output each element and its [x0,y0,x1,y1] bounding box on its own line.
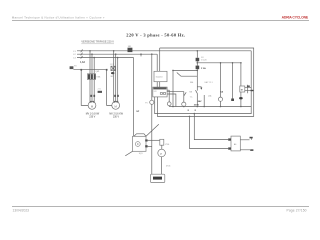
node dot column-L1 [197,50,199,52]
relay KA2 [231,136,240,151]
svg-text:P1: P1 [145,102,147,104]
svg-text:Page 27/150: Page 27/150 [287,209,307,213]
wires from controller box [167,90,184,106]
contactor KM1 hatched block [87,74,95,80]
svg-text:KA1 T.C.1: KA1 T.C.1 [205,81,213,84]
svg-text:T.C.: T.C. [190,97,194,99]
node dot L2-SP [151,53,153,55]
svg-text:KM1: KM1 [97,77,101,79]
wire loop to relay lower [190,116,229,148]
wire stub at node 141 [140,54,142,56]
breaker slash on L2 [81,53,83,56]
terminal square M2 [106,69,108,71]
svg-text:F 2A: F 2A [201,67,206,70]
footer rule [12,206,309,208]
svg-text:13/04/2023: 13/04/2023 [13,209,30,213]
svg-text:LT06: LT06 [165,144,169,146]
node dot L3-M2 [117,57,119,59]
fuse F2 [196,66,200,70]
wire M1 earth bracket [81,70,88,105]
relay K2 [240,86,245,92]
svg-text:Inverter: Inverter [156,76,163,79]
svg-text:24s: 24s [208,96,211,98]
buzzer branch [240,63,242,107]
wire L3 supply line [77,57,134,59]
wire branch x204 [203,95,205,107]
wire L1 supply line [77,50,251,52]
wire M1 phase drops [90,51,94,102]
wire switch to connector [148,139,160,141]
motor M2 [112,102,120,110]
wire loop inner [155,51,252,114]
svg-text:230 V: 230 V [89,116,95,118]
svg-text:MV 2 0,6 KW: MV 2 0,6 KW [109,113,123,115]
svg-text:VERSIONE TRIFASE 220 V: VERSIONE TRIFASE 220 V [81,40,114,44]
emergency stop SB1 [128,48,133,52]
wire loop outer [157,48,253,116]
svg-text:ADRIA CYCLONE: ADRIA CYCLONE [282,16,309,20]
node dot column-rail70 [197,70,199,72]
wire L2 drop through pressure switch [151,54,153,174]
svg-text:1,3A: 1,3A [80,61,85,64]
svg-text:M: M [241,89,243,91]
wire loop to relay upper [194,114,228,140]
svg-text:P: P [160,152,162,156]
thermal overload M2 [111,72,114,74]
terminal strip X1 [151,174,165,182]
relay KA2 left ticks [228,138,231,140]
node dot L2-M2 [115,53,117,55]
node dot rail left [172,70,174,72]
relay KA2 right stubs [240,140,250,150]
switch blade lower [125,151,132,156]
float pump motor [161,145,163,149]
svg-text:MV 1 0,6 KW: MV 1 0,6 KW [86,113,100,115]
connector block x232 [231,99,234,102]
svg-text:M2: M2 [111,76,114,78]
wire branch x173 [172,70,174,106]
svg-text:230V: 230V [194,104,200,106]
wire branch x232 [232,63,234,99]
wire float column [161,157,163,174]
node dot column-rail62 [197,62,199,64]
wire M2 phase drops [114,51,118,102]
svg-text:24V: 24V [198,100,202,103]
wire 24V rail [173,69,197,71]
coil KA1 arrow mark [197,86,201,89]
node dot L2-M1 [91,53,93,55]
svg-text:Manuel Technique & Notice d'Ut: Manuel Technique & Notice d'Utilisation … [12,16,105,20]
breaker slash on L3 [81,56,83,59]
header rule [12,20,309,22]
pressure switch SP [150,100,154,104]
lamp HL2 [167,102,171,106]
wire M2 earth bracket [107,70,112,105]
node dots bottom rail [172,106,174,108]
fuse FU2 [196,58,200,62]
connector LT06 box [160,139,164,145]
contact on lamp branch [184,92,186,96]
selector SA branch [220,63,222,107]
controller board U2 [153,87,167,97]
wire inverter to controller [157,82,160,87]
node dot L3-M1 [93,57,95,59]
wire inverter risers [157,48,160,71]
wire control column [196,51,198,107]
buzzer HA1 [239,97,243,99]
switch blade upper [146,124,159,136]
node dot L1-M1 [89,50,91,52]
node dots inner rail [220,62,222,64]
svg-text:220 V - 3 phase - 50-60 Hz.: 220 V - 3 phase - 50-60 Hz. [126,32,185,37]
node dot L2 stub [140,53,142,55]
wire L3 drop to switch SQ1 [133,58,135,137]
svg-text:SB1: SB1 [128,46,132,48]
switch SQ1 terminals [145,139,147,141]
relay K2 right stubs [245,85,254,93]
motor M1 [88,102,96,110]
wire bottom rail [169,106,251,108]
svg-text:SQ1: SQ1 [139,153,143,155]
switch SQ1 box [133,136,147,151]
breaker slash on L1 [81,50,83,53]
motor M1 terminals [91,95,93,97]
contact KM on control column [196,90,198,93]
svg-text:2T1: 2T1 [98,88,101,90]
svg-text:1 3 5: 1 3 5 [110,64,114,66]
contact KA1 horizontal branch [181,75,197,77]
svg-text:4T05: 4T05 [166,165,170,167]
lamp HL1 [182,102,186,106]
wire inner rail [197,62,241,64]
breaker QM2 box [111,66,115,70]
connector blob above M1 [98,91,102,93]
inverter U1 [154,71,167,81]
node dot L1-M2 [113,50,115,52]
fuse FU1 [70,66,74,69]
pin marks under loop [188,110,189,111]
svg-text:KA1: KA1 [190,81,193,84]
svg-text:QM1: QM1 [95,71,99,73]
terminal square M1 [80,69,82,71]
svg-text:230 V: 230 V [113,116,119,118]
wire fuse feed line [73,69,105,71]
wire L2 supply line [77,53,157,55]
svg-text:4 5x20: 4 5x20 [201,59,206,61]
wire switch to float column [148,145,152,147]
motor M2 terminals [114,95,116,97]
